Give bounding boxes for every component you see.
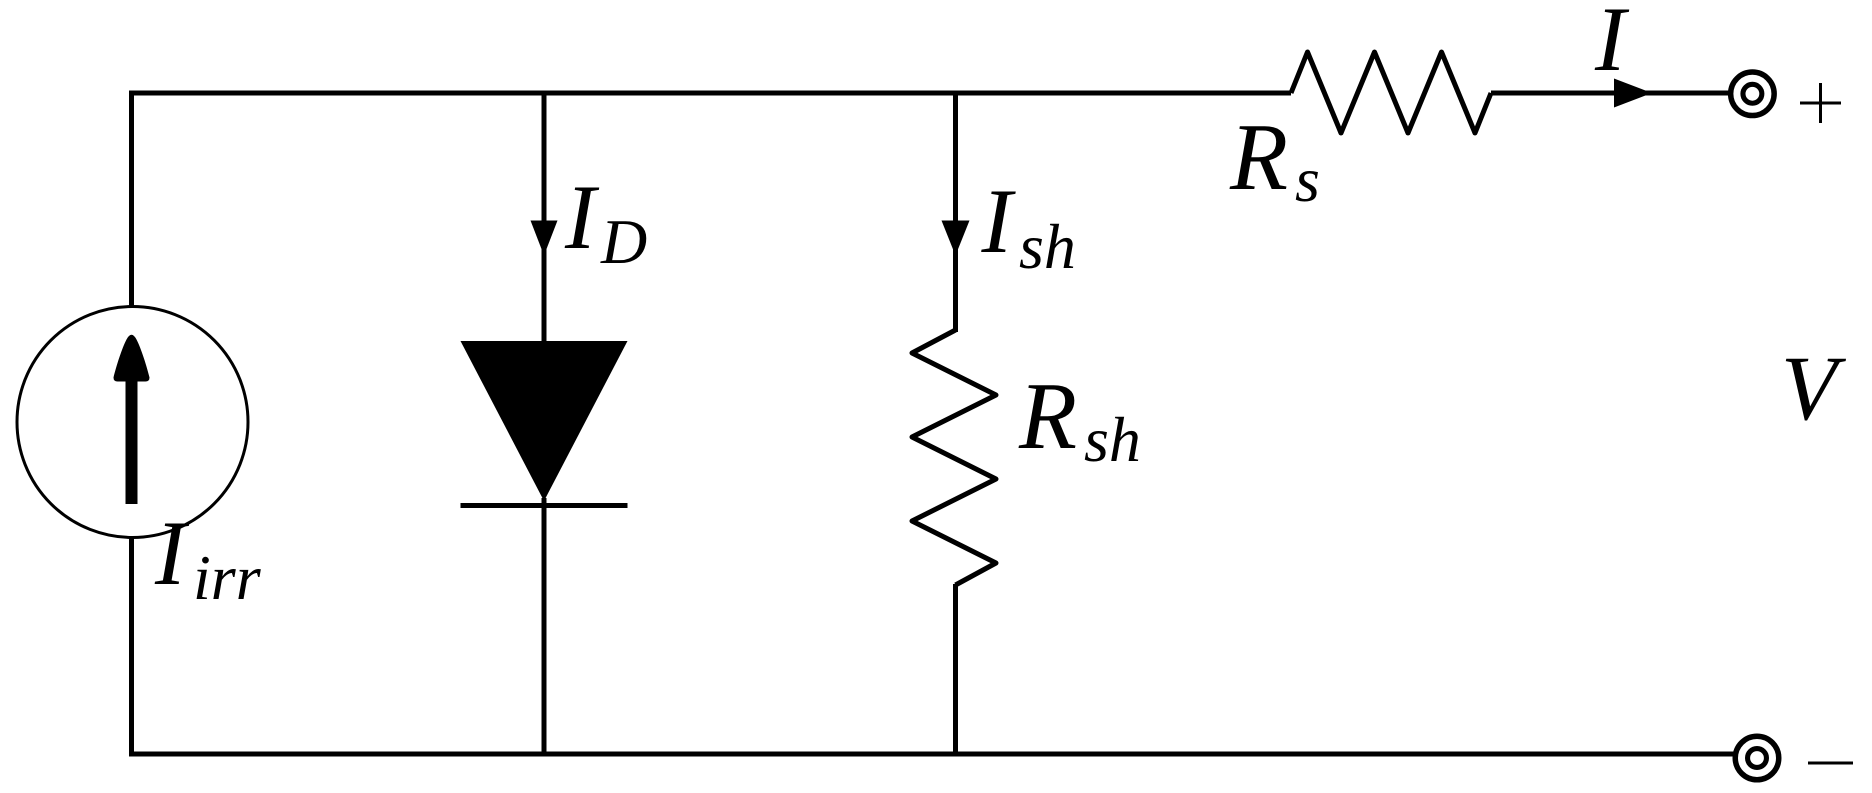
svg-text:I: I	[1594, 0, 1630, 90]
svg-text:irr: irr	[193, 542, 262, 613]
svg-text:I: I	[564, 166, 600, 268]
svg-text:s: s	[1295, 144, 1320, 215]
svg-text:sh: sh	[1084, 404, 1141, 475]
svg-text:I: I	[154, 502, 190, 604]
svg-text:D: D	[600, 206, 647, 277]
svg-text:V: V	[1781, 337, 1847, 439]
svg-text:sh: sh	[1019, 211, 1076, 282]
svg-text:R: R	[1018, 363, 1077, 469]
svg-text:R: R	[1229, 104, 1288, 210]
svg-text:I: I	[981, 170, 1017, 272]
